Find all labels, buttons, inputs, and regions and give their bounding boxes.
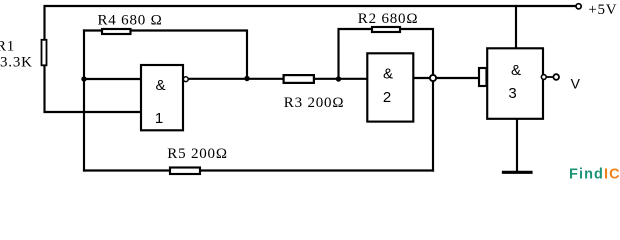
svg-text:&: & — [511, 62, 521, 79]
svg-text:2: 2 — [383, 89, 391, 106]
svg-text:R1: R1 — [0, 39, 15, 55]
svg-text:3: 3 — [508, 85, 516, 102]
svg-text:FindIC: FindIC — [569, 167, 620, 181]
svg-text:R3 200Ω: R3 200Ω — [284, 95, 345, 111]
svg-text:&: & — [155, 77, 165, 94]
svg-text:R2 680Ω: R2 680Ω — [358, 11, 419, 27]
svg-text:3.3K: 3.3K — [0, 55, 33, 71]
svg-text:+5V: +5V — [588, 2, 617, 18]
svg-text:1: 1 — [155, 110, 163, 127]
svg-text:R4 680 Ω: R4 680 Ω — [98, 13, 163, 29]
svg-text:R5 200Ω: R5 200Ω — [167, 146, 228, 162]
svg-text:&: & — [383, 65, 393, 82]
svg-text:V: V — [571, 76, 581, 92]
